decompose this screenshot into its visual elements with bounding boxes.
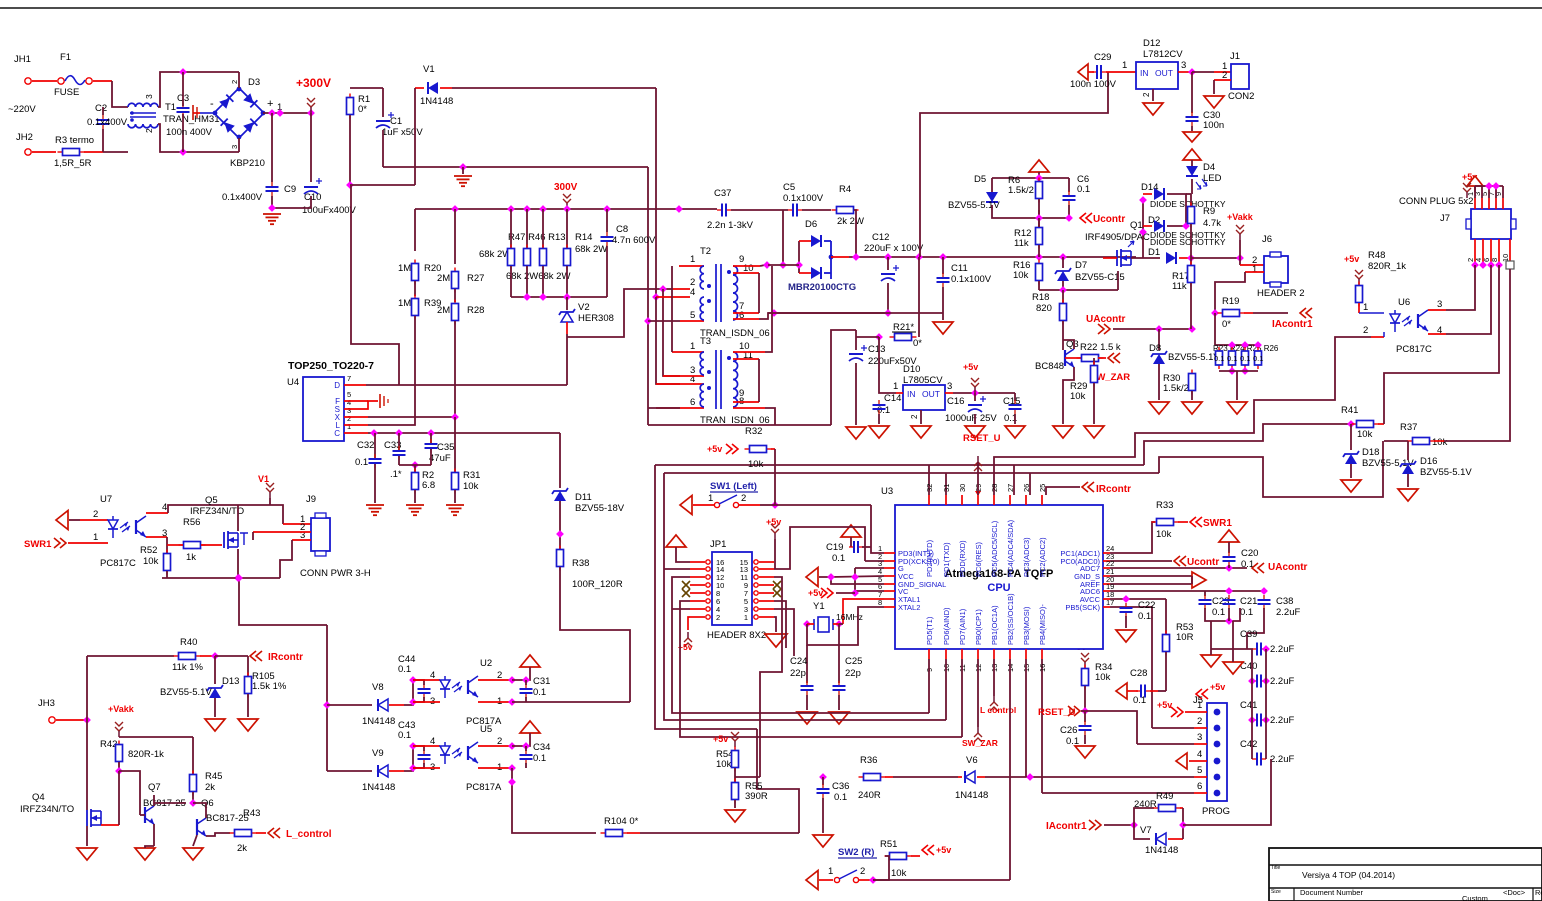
svg-text:SWR1: SWR1: [24, 539, 52, 550]
fuse F1 element: [65, 76, 85, 85]
wire U4 F pin red: [344, 400, 368, 402]
wire R46 bottom: [526, 266, 528, 297]
svg-text:C11: C11: [951, 263, 968, 274]
wire V6 left stub: [958, 776, 962, 778]
no-connect JP1 pin9: [773, 581, 781, 589]
svg-text:IRF4905/DPAC: IRF4905/DPAC: [1085, 232, 1150, 243]
resistor R45: [190, 771, 197, 796]
svg-text:SW1 (Left): SW1 (Left): [710, 481, 757, 492]
wire U6 pin3 to J7: [1446, 265, 1475, 310]
power symbol +300V: [307, 98, 315, 113]
svg-text:2.2uF: 2.2uF: [1270, 644, 1294, 655]
capacitor R25 0.1: [1242, 347, 1249, 369]
wire U6 pin1 wire: [1359, 312, 1384, 314]
wire R6 bottom: [1038, 199, 1040, 218]
wire D12 out: [1178, 71, 1192, 73]
svg-text:HEADER 8X2: HEADER 8X2: [707, 630, 766, 641]
svg-text:1: 1: [1197, 700, 1202, 711]
wire V6 to pin15: [985, 776, 1030, 778]
svg-text:PB5(SCK): PB5(SCK): [1065, 603, 1100, 612]
crystal Y1 symbol: [814, 617, 833, 632]
wire T3 pin3 stub: [663, 375, 704, 377]
wire JP1 right stub 3: [759, 608, 774, 610]
svg-text:0.1: 0.1: [832, 553, 845, 564]
svg-text:+5v: +5v: [808, 588, 823, 598]
svg-text:C16: C16: [947, 396, 964, 407]
svg-text:2.2n 1-3kV: 2.2n 1-3kV: [707, 220, 754, 231]
svg-text:2: 2: [93, 509, 98, 520]
svg-text:2: 2: [860, 866, 865, 877]
svg-text:Size: Size: [1271, 889, 1281, 895]
wire U5 pin3 red: [413, 767, 440, 769]
svg-text:2M: 2M: [437, 273, 450, 284]
net arrow IRcontr left: [250, 651, 262, 661]
wire cluster bottoms: [1205, 608, 1240, 621]
svg-text:IAcontr1: IAcontr1: [1272, 319, 1313, 330]
gnd tick symbol F/S: [380, 394, 388, 408]
wire J7 bottom pin 8 stub: [1498, 239, 1500, 265]
wire U4 L pin red: [344, 424, 368, 426]
wire D6 anode bracket: [798, 241, 800, 273]
wire J9 pin3 red: [292, 539, 311, 541]
wire R28 down to drain row: [454, 321, 456, 417]
fuse F1 left terminal: [58, 78, 64, 84]
wire jp1 pin6 bus: [680, 601, 962, 737]
wire rail2 up to C8: [606, 246, 608, 297]
bridge D3 vertex top: [237, 87, 242, 92]
wire R49 join down: [1182, 808, 1184, 825]
regulator D10 box: [903, 385, 945, 410]
wire JP1 right stub 11: [759, 576, 774, 578]
net arrow RSET_U: [1068, 706, 1080, 716]
wire C24 bottom: [806, 695, 808, 710]
svg-text:10k: 10k: [1432, 437, 1448, 448]
svg-text:4: 4: [1197, 749, 1202, 760]
resistor R53: [1163, 631, 1170, 656]
svg-text:0.1: 0.1: [398, 730, 411, 741]
wire JP1 left stub 4: [690, 608, 705, 610]
svg-text:5: 5: [1197, 765, 1202, 776]
diode D1 schottky: [1166, 252, 1176, 264]
svg-text:C: C: [334, 429, 340, 438]
header JP1 right contact 15: [754, 560, 758, 564]
wire R53 bottom: [1165, 652, 1167, 691]
wire Q4 source red: [101, 824, 119, 826]
wire T2 pin6 stub: [733, 318, 759, 320]
junction V8 tap: [323, 701, 331, 709]
wire cpu bottom pin 13 stub: [993, 649, 995, 659]
wire Q5 drain up: [237, 505, 239, 531]
wire R14 bottom: [566, 266, 568, 297]
svg-text:+5v: +5v: [707, 444, 722, 454]
wire JP1 left stub 8: [690, 592, 705, 594]
wire T3 pin4 stub: [656, 383, 704, 385]
wire T1 bottom rail: [158, 124, 239, 152]
wire U7 pin4 red: [146, 512, 168, 514]
wire R49 branch: [1134, 808, 1154, 825]
svg-text:C28: C28: [1130, 668, 1147, 679]
wire C9 C10 bottom rail: [272, 196, 311, 208]
svg-text:0.1: 0.1: [533, 687, 546, 698]
svg-text:R22 1.5 k: R22 1.5 k: [1080, 342, 1121, 353]
wire D6 out rail: [849, 256, 1136, 258]
svg-text:+5v: +5v: [963, 362, 978, 372]
svg-text:R32: R32: [745, 426, 762, 437]
svg-text:C37: C37: [714, 188, 731, 199]
capacitor C12: [881, 265, 899, 281]
ground below D16: [1398, 489, 1418, 501]
svg-text:28: 28: [990, 484, 999, 492]
svg-text:10R: 10R: [1176, 632, 1194, 643]
title block size divider: [1293, 888, 1295, 901]
wire V7 right red: [1168, 838, 1183, 840]
transistor Q3: [1065, 349, 1074, 367]
wire U7 pin4 up: [168, 505, 270, 513]
wire cpu pin11 drop: [961, 659, 963, 737]
junction rail2 V2: [563, 293, 571, 301]
wire R16 bottom: [1038, 281, 1040, 290]
capacitor C41: [1252, 714, 1266, 727]
wire V8 col: [326, 625, 328, 771]
junction U5 out: [508, 778, 516, 786]
svg-text:3: 3: [947, 381, 952, 392]
svg-text:68k 2W: 68k 2W: [575, 244, 607, 255]
wire Q5 source down: [237, 549, 239, 578]
wire IAcontr1 to ladder: [1183, 759, 1271, 825]
wire R27 drop: [454, 209, 456, 264]
wire C44 top link: [413, 680, 424, 685]
junction UAcontr R30: [1188, 325, 1196, 333]
svg-text:820R-1k: 820R-1k: [128, 749, 164, 760]
wire cpu right pin 24 stub: [1103, 552, 1110, 554]
wire bank top rail: [1215, 344, 1259, 346]
capacitor C15: [1009, 400, 1022, 414]
svg-text:CPU: CPU: [987, 582, 1010, 594]
wire T3 pin6 stub: [656, 407, 704, 409]
svg-text:R51: R51: [880, 839, 897, 850]
wire Q7 base link: [140, 814, 145, 816]
svg-text:C22: C22: [1138, 600, 1155, 611]
wire J5 pin2 stub: [1194, 727, 1207, 729]
wire cpu top pin 31 stub: [945, 495, 947, 505]
wire cpu pin10 drop: [945, 659, 947, 720]
junction C40 left: [1248, 677, 1256, 685]
capacitor C11: [937, 273, 950, 287]
svg-text:-: -: [210, 98, 214, 110]
wire return line y167: [383, 166, 648, 168]
resistor R13: [540, 245, 547, 270]
junction D1 out: [1187, 254, 1195, 262]
resistor R52: [164, 550, 171, 575]
connector J5 pin5 contact: [1214, 774, 1221, 781]
svg-text:R33: R33: [1156, 500, 1173, 511]
junction out rail x888: [884, 253, 892, 261]
header JP1 right contact 1: [754, 615, 758, 619]
svg-text:+Vakk: +Vakk: [108, 704, 135, 714]
wire U5 pin4 red: [413, 745, 440, 747]
wire bottom rail up x831: [831, 330, 856, 425]
svg-text:HER308: HER308: [578, 313, 614, 324]
resistor R21: [890, 334, 917, 341]
junction J7 bottom x1491: [1487, 261, 1495, 269]
svg-text:0.1: 0.1: [533, 753, 546, 764]
wire J5 pin1 red left: [1185, 711, 1194, 713]
wire R29 top: [1093, 358, 1095, 366]
wire Y1 right stub: [833, 623, 839, 625]
wire D14 anode stub: [1143, 193, 1152, 195]
resistor R4: [832, 207, 859, 214]
junction C ladder right 720: [1262, 716, 1270, 724]
wire R48 to U6 pin1: [1358, 303, 1360, 313]
svg-text:R18: R18: [1032, 292, 1049, 303]
wire C25 drop: [838, 624, 840, 683]
svg-text:1: 1: [93, 532, 98, 543]
svg-text:IRcontr: IRcontr: [1096, 484, 1131, 495]
wire R2 bottom: [414, 490, 416, 503]
svg-text:V8: V8: [372, 682, 384, 693]
junction C22 top: [1122, 595, 1130, 603]
svg-text:FUSE: FUSE: [54, 87, 79, 98]
svg-text:10k: 10k: [1357, 429, 1373, 440]
connector J5 pin2 contact: [1214, 725, 1221, 732]
svg-text:+5v: +5v: [713, 734, 728, 744]
capacitor C3: [177, 103, 190, 117]
wire x656 down to T3 pin4: [656, 297, 680, 384]
wire J9 pin3 route: [280, 540, 292, 578]
svg-text:PB2(SS/OC1B): PB2(SS/OC1B): [1006, 593, 1015, 645]
wire D8 drop: [1158, 329, 1160, 350]
wire pin18 AVCC: [1110, 598, 1166, 600]
connector J7 side tabs: [1466, 219, 1516, 229]
header JP1 left contact 2: [706, 615, 710, 619]
no-connect JP1 pin8: [682, 589, 690, 597]
power +Vakk: [1236, 225, 1244, 240]
wire U2 out: [512, 701, 630, 703]
svg-text:PD(XCK/T0): PD(XCK/T0): [898, 557, 940, 566]
wire pin1 route: [871, 505, 884, 553]
T2 phase dot B: [707, 299, 711, 303]
wire rail drop x919: [918, 257, 920, 337]
svg-text:PC6(RES): PC6(RES): [974, 541, 983, 577]
regulator D12 box: [1136, 62, 1178, 89]
svg-text:0.1: 0.1: [398, 664, 411, 675]
resistor R6: [1036, 178, 1043, 203]
svg-text:10k: 10k: [463, 481, 479, 492]
wire T2pin1 to T3pin1: [671, 266, 673, 352]
wire bus x655 drop: [655, 465, 757, 729]
net arrow UAcontr: [1098, 324, 1110, 334]
wire cpu bottom pin 15 stub: [1025, 649, 1027, 659]
svg-text:CONN PLUG 5x2: CONN PLUG 5x2: [1399, 196, 1473, 207]
diode V1: [428, 82, 438, 94]
svg-text:1N4148: 1N4148: [362, 782, 395, 793]
title block doc divider: [1532, 888, 1534, 901]
junction UAcontr D8: [1155, 325, 1163, 333]
wire J7 pin riser x1503: [1502, 186, 1504, 198]
svg-text:JP1: JP1: [710, 539, 726, 550]
svg-text:U7: U7: [100, 494, 112, 505]
svg-text:Custom: Custom: [1462, 894, 1488, 901]
capacitor C29: [1092, 65, 1106, 79]
diode D6 top: [811, 235, 821, 247]
svg-text:IRFZ34N/TO: IRFZ34N/TO: [190, 506, 244, 517]
wire D1 out to J6: [1191, 257, 1240, 259]
resistor R17: [1188, 262, 1195, 287]
mosfet Q1 IRF4905: [1117, 249, 1131, 267]
svg-text:100R_120R: 100R_120R: [572, 579, 623, 590]
wire R13 bottom: [542, 266, 544, 297]
wire C29 to D12: [1106, 71, 1136, 73]
wire Q7 collector: [153, 795, 155, 806]
wire R32 right red: [771, 448, 775, 450]
wire C11 top: [942, 257, 944, 274]
svg-text:L7812CV: L7812CV: [1143, 49, 1183, 60]
wire C12 bottom: [887, 283, 889, 313]
junction R41 left: [1347, 420, 1355, 428]
wire C28 right stub: [1150, 690, 1158, 692]
wire R38 bottom: [560, 567, 630, 702]
transformer T1 phase dot bottom: [130, 118, 134, 122]
wire J7 top pin 5 stub: [1488, 198, 1490, 209]
wire T2 pin5 stub: [680, 320, 704, 322]
bridge D3 diode upper-left: [219, 95, 233, 109]
ground below C26: [1075, 746, 1095, 758]
wire V1 anode branch down: [414, 88, 416, 185]
svg-text:PC5(ADC5/SCL): PC5(ADC5/SCL): [990, 520, 999, 577]
wire C30 branch: [1191, 72, 1193, 113]
svg-text:2.2uF: 2.2uF: [1270, 754, 1294, 765]
svg-text:1: 1: [1122, 60, 1127, 71]
wire xtal1 into Y1: [839, 623, 843, 625]
svg-text:PC817C: PC817C: [100, 558, 136, 569]
svg-text:R38: R38: [572, 558, 589, 569]
ground ladder a: [1201, 655, 1221, 667]
header JP1 right contact 3: [754, 607, 758, 611]
wire JP1 pin1 down: [774, 617, 776, 632]
wire R31 bottom: [454, 490, 456, 503]
wire C36 top: [822, 777, 824, 785]
diode V9: [378, 765, 388, 777]
cpu U3 Atmega168 box: [895, 505, 1103, 649]
wire Q3 collector: [1063, 340, 1074, 349]
diode D8: [1151, 351, 1167, 364]
connector pin JH3: [49, 717, 55, 723]
wire R2 top: [414, 465, 416, 473]
junction T2 pin6 line: [770, 309, 778, 317]
wire C15 bottom: [1014, 414, 1016, 424]
svg-text:1: 1: [347, 422, 351, 431]
svg-text:11k 1%: 11k 1%: [172, 662, 204, 673]
ground below D18: [1341, 480, 1361, 492]
power arrow left C29: [1078, 64, 1088, 80]
wire cluster down to gnd: [1210, 621, 1212, 649]
power chevron V1: [266, 483, 274, 498]
wire bus x664 drop: [664, 473, 946, 720]
wire D6 top anode stub: [799, 240, 811, 242]
wire cpu bottom pin 9 stub: [928, 649, 930, 659]
wire C19 right: [862, 546, 871, 548]
wire JP1 right stub 13: [759, 568, 774, 570]
ground below R55: [725, 810, 745, 822]
svg-text:C39: C39: [1240, 629, 1257, 640]
svg-text:C31: C31: [533, 676, 550, 687]
svg-text:30: 30: [958, 484, 967, 492]
junction C32 top: [370, 429, 378, 437]
wire C14 bottom: [878, 414, 880, 424]
wire C37 to corner: [731, 209, 788, 211]
wire bus y465: [655, 464, 1144, 466]
svg-text:V9: V9: [372, 748, 384, 759]
wire jp1 pin5 bus: [774, 601, 786, 648]
junction rail x679: [675, 205, 683, 213]
wire J1 pin2 red: [1214, 79, 1231, 81]
net arrow +5v R32: [726, 444, 738, 454]
wire Q4 source to R42 node: [118, 771, 120, 825]
wire V1 anode stub: [415, 87, 424, 89]
capacitor C1: [376, 112, 394, 128]
wire D6 cathode links2: [824, 272, 831, 274]
wire +5v to VC pin: [836, 592, 855, 594]
junction R49 V7 join: [1179, 821, 1187, 829]
ground below C30: [1183, 132, 1201, 142]
switch SW2 contact 2: [853, 877, 858, 882]
svg-text:HEADER 2: HEADER 2: [1257, 288, 1305, 299]
capacitor C38: [1258, 595, 1271, 609]
svg-text:10k: 10k: [143, 556, 159, 567]
switch SW2 contact 1: [834, 877, 839, 882]
wire JP1 right stub 15: [759, 561, 774, 563]
wire R52 bottom: [166, 571, 168, 578]
net arrow SWR1: [1190, 517, 1202, 527]
wire D7 top: [1062, 257, 1064, 268]
wire D18 bottom: [1350, 464, 1352, 478]
junction C19 VCC: [851, 573, 859, 581]
ground below C15: [1005, 426, 1025, 438]
svg-text:Ucontr: Ucontr: [1187, 557, 1219, 568]
wire R13 top: [542, 209, 544, 249]
wire T2 pin1 stub: [679, 265, 704, 267]
connector J6 box: [1264, 256, 1288, 283]
wire cpu top pin 25 stub: [1041, 495, 1043, 505]
svg-text:0*: 0*: [1222, 319, 1231, 330]
svg-text:MBR20100CTG: MBR20100CTG: [788, 282, 856, 293]
wire J5 pin5 wire: [1030, 776, 1194, 778]
wire T3 pin1 stub: [672, 351, 704, 353]
transformer T2 core: [716, 264, 721, 322]
ground below R105: [238, 719, 258, 731]
wire D14 node to R9: [1186, 193, 1191, 195]
diode D13: [207, 685, 223, 698]
header JP1 left contact 10: [706, 583, 710, 587]
junction fb row R18: [1059, 286, 1067, 294]
junction C9 bottom: [268, 204, 276, 212]
svg-text:10k: 10k: [1095, 672, 1111, 683]
junction C36 node: [819, 773, 827, 781]
wire bank bottom rail: [1219, 370, 1258, 372]
junction +300V node: [307, 109, 315, 117]
wire jp1 pin12 bus: [672, 577, 929, 713]
junction D14 bracket mid: [1139, 228, 1147, 236]
capacitor C26: [1079, 721, 1092, 735]
svg-text:R3 termo: R3 termo: [55, 135, 94, 146]
wire J5 pin3 stub: [1194, 743, 1207, 745]
net RSET marker: [975, 491, 981, 496]
wire R30 bottom: [1191, 391, 1193, 400]
wire T2 pin6 out: [759, 313, 887, 319]
svg-text:2: 2: [1142, 92, 1151, 97]
wire cpu left pin 7 stub: [884, 598, 895, 600]
net arrow Ucontr top: [1080, 213, 1092, 223]
